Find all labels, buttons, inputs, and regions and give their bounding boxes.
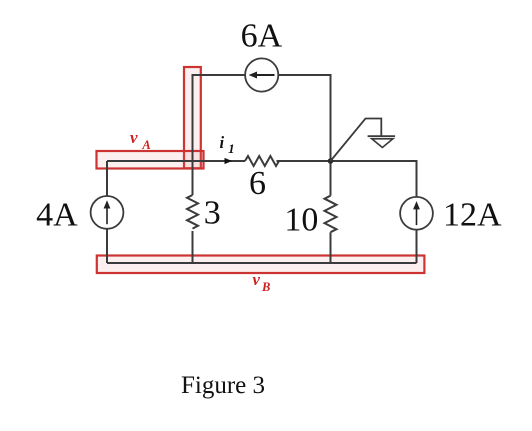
- wire 4A branch top: [106, 161, 108, 196]
- ground symbol: [331, 119, 382, 162]
- wire bottom bus: [107, 262, 417, 264]
- node dot: [328, 158, 334, 164]
- wire resistor3 to bus: [192, 231, 194, 263]
- resistor 3: [187, 195, 198, 229]
- wire middle horizontal right segment: [277, 161, 417, 197]
- node vA highlight vertical red box: [184, 67, 201, 168]
- node vA highlight horizontal red box: [97, 151, 204, 169]
- svg-text:4A: 4A: [36, 196, 78, 233]
- wire middle horizontal left segment: [107, 160, 245, 162]
- svg-text:6A: 6A: [241, 17, 283, 54]
- wire top-left from vA corner to 6A source: [193, 75, 247, 76]
- wire vA vertical down to resistor 3: [192, 75, 194, 195]
- svg-text:3: 3: [204, 195, 221, 232]
- current source 4A: [91, 196, 124, 229]
- svg-text:6: 6: [249, 165, 266, 202]
- wire 4A branch bottom: [106, 229, 108, 263]
- resistor 10: [325, 196, 337, 233]
- svg-text:12A: 12A: [443, 197, 502, 234]
- i1 arrow on wire: [225, 158, 233, 164]
- node vB highlight red box: [97, 256, 425, 274]
- current source 6A: [245, 58, 278, 91]
- wire 12A source bottom to bus: [416, 230, 418, 263]
- current source 12A: [400, 197, 433, 230]
- svg-text:Figure 3: Figure 3: [181, 372, 265, 399]
- svg-text:10: 10: [284, 202, 318, 239]
- resistor 6: [245, 156, 279, 166]
- wire node to resistor 10: [330, 161, 332, 196]
- wire resistor10 to bus: [330, 232, 332, 263]
- wire top-right from 6A source to corner and down to node: [278, 75, 331, 161]
